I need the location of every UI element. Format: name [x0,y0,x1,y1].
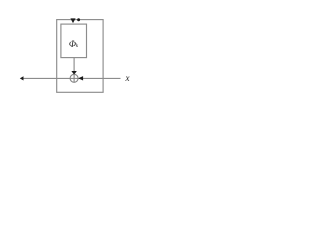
wire: connector block bottom to summing junction [73,58,75,72]
wire: main horizontal line [22,77,121,79]
outer feedback loop rectangle [57,20,103,93]
arrowhead: down into block [70,18,75,23]
svg-text:x: x [125,73,130,83]
arrowhead: down into summing junction [71,71,76,75]
summing junction circle [70,74,78,82]
arrowhead: input x into summing junction (pointing left) [78,76,83,80]
plus vertical inside summing junction [73,74,75,82]
inner block box [61,24,87,58]
junction dot on top edge [77,18,80,21]
arrowhead: output arrow at far left [20,76,24,80]
wire: top stub into block [72,19,74,22]
